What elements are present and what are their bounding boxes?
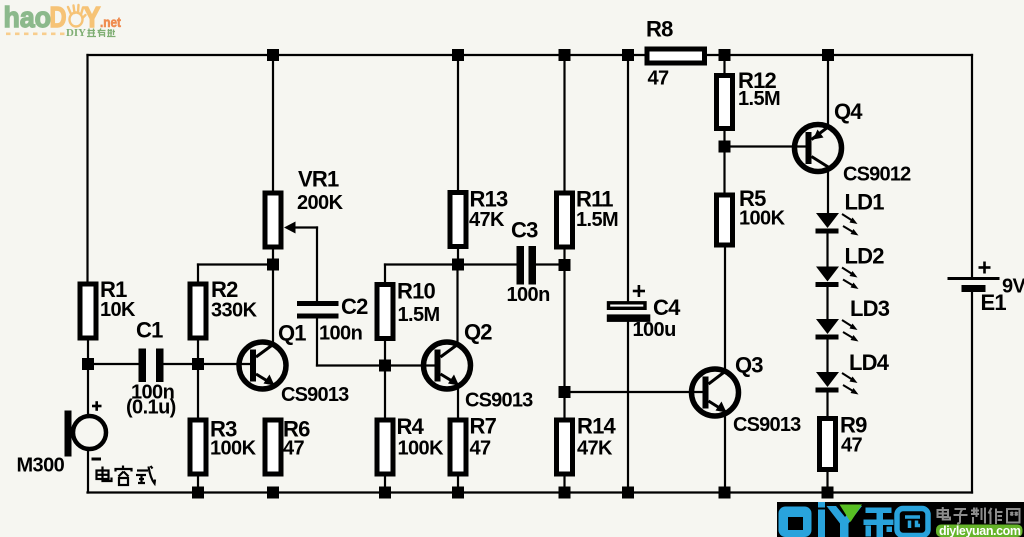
diy leyuan logo letter i	[818, 502, 825, 537]
wire microphone to ground rail	[87, 450, 89, 493]
gray chinese dian zi zhi zuo wang	[938, 507, 1020, 524]
wire R9 bottom to ground rail	[826, 472, 828, 493]
resistor R3	[190, 417, 257, 475]
wire Q3 emitter to ground rail	[724, 413, 726, 493]
node R6 ground	[267, 487, 279, 499]
resistor R10	[377, 279, 440, 339]
node Q3 emitter ground	[719, 487, 731, 499]
potentiometer VR1	[265, 167, 344, 248]
svg-text:200K: 200K	[297, 192, 344, 214]
svg-text:CS9013: CS9013	[465, 390, 533, 412]
svg-text:R4: R4	[397, 414, 425, 439]
svg-text:LD2: LD2	[845, 244, 885, 269]
wire Q4 collector to LD1	[827, 169, 829, 213]
capacitor C2	[297, 294, 368, 345]
svg-text:47K: 47K	[577, 438, 613, 460]
wire C2 bottom down	[316, 319, 318, 366]
svg-text:R13: R13	[470, 187, 509, 212]
wire top rail to VR1	[272, 55, 274, 191]
microphone M300	[17, 401, 107, 476]
node R3 ground	[192, 487, 204, 499]
svg-text:R11: R11	[576, 187, 613, 212]
wire top rail to Q4 emitter	[827, 55, 829, 127]
wire mic node to microphone	[87, 364, 89, 415]
node R13 top	[452, 49, 464, 61]
haoDIY.net logo chinese zhen you qu	[87, 29, 116, 38]
svg-text:Q4: Q4	[834, 99, 863, 124]
wire right column battery top	[971, 55, 973, 277]
svg-text:330K: 330K	[211, 300, 258, 322]
svg-text:47: 47	[470, 438, 492, 460]
wire right column battery bottom	[971, 292, 973, 493]
diy leyuan logo chinese yuan	[897, 509, 928, 536]
node R13 bottom	[452, 259, 464, 271]
svg-text:100K: 100K	[398, 438, 445, 460]
resistor R14	[557, 414, 617, 475]
wire R13 node to C3 left	[458, 263, 517, 265]
svg-text:47: 47	[841, 435, 863, 457]
wire R10 top to R13 node	[385, 263, 458, 265]
svg-text:1.5M: 1.5M	[576, 209, 618, 231]
resistor R1	[80, 277, 136, 338]
resistor R2	[190, 277, 258, 338]
svg-text:C2: C2	[341, 294, 368, 319]
svg-text:CS9013: CS9013	[281, 384, 349, 406]
resistor R12	[717, 68, 781, 129]
svg-text:1.5M: 1.5M	[398, 304, 440, 326]
wire node to Q2 collector	[456, 265, 458, 345]
svg-text:M300: M300	[17, 455, 65, 477]
diy leyuan logo black banner	[777, 502, 1024, 537]
svg-text:100K: 100K	[210, 438, 257, 460]
diy leyuan logo chinese le	[864, 508, 894, 537]
svg-text:CS9013: CS9013	[733, 414, 801, 436]
node R11 top	[559, 49, 571, 61]
capacitor C4 electrolytic	[607, 285, 681, 341]
wire R2 to VR1 bottom node	[198, 263, 273, 265]
svg-text:47K: 47K	[469, 209, 505, 231]
node R9 ground	[822, 487, 834, 499]
wire top supply rail right segment	[707, 54, 972, 56]
svg-text:R7: R7	[470, 414, 497, 439]
wire VR1 bottom to node	[272, 250, 274, 265]
node C4 top	[622, 49, 634, 61]
wire R12 node to Q4 base	[725, 145, 806, 147]
transistor Q3 CS9013	[692, 353, 802, 437]
node Q1 base	[192, 358, 204, 370]
node R14 ground	[559, 487, 571, 499]
node R7 ground	[452, 487, 464, 499]
svg-text:C3: C3	[511, 218, 538, 243]
svg-text:100n: 100n	[319, 323, 362, 345]
wire top supply rail left segment	[88, 54, 645, 56]
transistor Q1 CS9013	[239, 321, 349, 407]
capacitor C1	[126, 318, 176, 419]
wire R10 bottom to base node	[384, 341, 386, 366]
svg-text:D: D	[50, 2, 67, 34]
wire VR1 wiper down to C2	[316, 228, 318, 302]
diy leyuan logo letter D	[779, 507, 812, 537]
svg-text:R10: R10	[397, 279, 436, 304]
wire top rail to R13	[457, 55, 459, 190]
resistor R11	[557, 187, 619, 248]
wire bottom ground rail	[88, 491, 973, 493]
wire top rail to R11	[563, 55, 565, 191]
wire C3 right to R11 node	[536, 263, 565, 265]
svg-text:Q1: Q1	[278, 321, 306, 346]
node VR1 bottom	[267, 259, 279, 271]
svg-text:1.5M: 1.5M	[738, 88, 780, 110]
svg-text:100K: 100K	[739, 208, 786, 230]
wire R3 bottom to ground rail	[197, 477, 199, 493]
svg-text:DIY: DIY	[66, 28, 86, 39]
wire node to Q1 collector	[272, 265, 274, 345]
LED LD2	[816, 244, 885, 290]
wire R14 bottom to ground rail	[563, 477, 565, 493]
wire R2 bottom to R3 top	[197, 342, 199, 418]
LED LD4	[816, 350, 890, 395]
resistor R4	[377, 414, 444, 474]
resistor R5	[717, 186, 786, 245]
svg-text:.net: .net	[100, 15, 121, 30]
svg-text:47: 47	[283, 438, 305, 460]
wire R11 bottom through C3 node to R14	[563, 250, 565, 418]
svg-text:Y: Y	[84, 2, 101, 34]
svg-text:100n: 100n	[507, 284, 550, 306]
wire LD3 to LD4	[826, 340, 828, 372]
wire base node down to R4	[384, 366, 386, 418]
svg-text:diyleyuan.com: diyleyuan.com	[939, 524, 1021, 537]
node Q4 emitter top	[822, 49, 834, 61]
svg-text:VR1: VR1	[298, 167, 339, 192]
green diyleyuan.com pill	[936, 524, 1023, 537]
battery E1 9V	[948, 262, 1024, 316]
resistor R7	[450, 414, 497, 475]
wire R13 bottom to node	[457, 249, 459, 265]
wire C2 to Q2 base through R10 node	[317, 364, 435, 366]
capacitor C3	[507, 218, 550, 307]
svg-text:100u: 100u	[633, 319, 676, 341]
node R12 top	[719, 49, 731, 61]
LED LD1	[816, 190, 885, 236]
wire LD1 to LD2	[826, 234, 828, 267]
resistor R6	[265, 417, 310, 475]
node Q3 base	[559, 386, 571, 398]
wire mic node to C1	[88, 363, 139, 365]
wire C4 bottom to ground rail	[627, 322, 629, 493]
svg-text:10K: 10K	[100, 299, 136, 321]
wire Q2 emitter to R7	[457, 385, 459, 418]
wire R1 bottom to mic node	[87, 342, 89, 365]
svg-text:Q3: Q3	[735, 353, 763, 378]
wire VR1 bottom node to R2 top	[197, 265, 199, 282]
node C4 ground	[622, 487, 634, 499]
svg-text:47: 47	[648, 68, 670, 90]
wire left column top to R1	[86, 55, 88, 282]
haoDIY.net logo dashed underline	[6, 32, 65, 35]
transistor Q2 CS9013	[424, 320, 534, 412]
svg-text:(0.1u): (0.1u)	[126, 397, 176, 419]
svg-text:LD3: LD3	[850, 296, 890, 321]
svg-text:LD1: LD1	[845, 190, 885, 215]
wire R4 bottom to ground rail	[384, 477, 386, 493]
transistor Q4 CS9012	[795, 99, 912, 186]
wire top rail to C4	[627, 55, 629, 302]
resistor R8 horizontal	[646, 17, 705, 90]
wire LD4 to R9	[826, 393, 828, 416]
svg-text:R2: R2	[211, 277, 238, 302]
label mic type chinese dian rong shi	[97, 466, 156, 486]
diy leyuan logo letter Y	[827, 506, 863, 537]
svg-text:R8: R8	[646, 17, 673, 42]
svg-text:C4: C4	[653, 295, 681, 320]
svg-text:Q2: Q2	[464, 320, 492, 345]
node mic C1 R1	[82, 358, 94, 370]
LED LD3	[816, 296, 890, 342]
wire R14 node to Q3 base	[565, 391, 703, 393]
wire LD2 to LD3	[826, 287, 828, 319]
wire R7 bottom to ground rail	[457, 477, 459, 493]
wire top rail to R12	[723, 55, 725, 73]
diy leyuan logo green triangle	[840, 505, 863, 523]
wire VR1 wiper horizontal	[293, 226, 317, 228]
resistor R13	[450, 187, 508, 247]
svg-text:LD4: LD4	[849, 350, 890, 375]
haoDIY.net logo hand glyph	[68, 5, 86, 27]
wire R5 bottom to Q3 collector	[724, 248, 726, 372]
wire R12 bottom to R5 top	[723, 131, 725, 193]
node Q2 base	[379, 360, 391, 372]
node C3 right	[559, 259, 571, 271]
wire R10 top stub	[384, 265, 386, 283]
svg-text:hao: hao	[4, 2, 52, 34]
wire C1 to Q1 base	[164, 363, 251, 365]
node Q4 base	[719, 141, 731, 153]
svg-text:E1: E1	[981, 290, 1007, 315]
svg-text:CS9012: CS9012	[843, 164, 911, 186]
resistor R9	[820, 413, 868, 470]
node R4 ground	[379, 487, 391, 499]
svg-text:C1: C1	[136, 318, 163, 343]
node VR1 top	[267, 49, 279, 61]
svg-text:R14: R14	[577, 414, 617, 439]
